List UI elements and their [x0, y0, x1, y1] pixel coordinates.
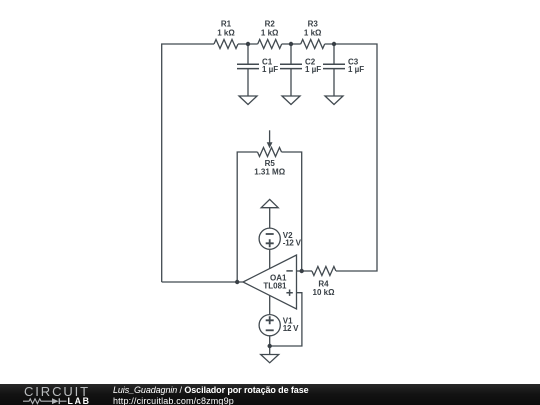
resistor R4 [312, 267, 336, 276]
ground (C2) [282, 96, 300, 105]
wire: V1 to ground node [269, 336, 271, 346]
svg-text:10 kΩ: 10 kΩ [313, 288, 336, 297]
ground (C1) [239, 96, 257, 105]
supply arrow (up) [261, 199, 278, 228]
node: ground junction [268, 344, 272, 348]
svg-text:1 kΩ: 1 kΩ [304, 28, 322, 37]
wire: output left rail up to R1 left lead [162, 44, 214, 282]
wire: inverting input stub [297, 270, 313, 272]
node: inverting input junction [300, 269, 304, 273]
resistor R1 [214, 40, 238, 49]
op-amp OA1 triangle [243, 255, 297, 309]
CircuitLab logo glyph: resistor + diode [23, 396, 67, 405]
svg-text:R5: R5 [265, 159, 276, 168]
CircuitLab logo: LAB [68, 396, 91, 405]
svg-text:1 kΩ: 1 kΩ [261, 28, 279, 37]
node: R2/R3/C2 junction [289, 42, 293, 46]
source V1 [259, 315, 280, 336]
svg-text:1 µF: 1 µF [348, 65, 364, 74]
ground (C3) [325, 96, 343, 105]
op-amp inverting pin mark [286, 270, 292, 272]
wire: output node to R5 left lead [237, 152, 257, 282]
wire: op-amp V- pin to V1 [269, 296, 271, 315]
node: R3/C3 junction [332, 42, 336, 46]
svg-text:-12 V: -12 V [283, 239, 302, 248]
wire: op-amp output [162, 281, 243, 283]
wire: V2 to op-amp V+ pin [269, 249, 271, 268]
resistor R2 [258, 40, 282, 49]
op-amp non-inverting pin mark [286, 290, 292, 296]
CircuitLab logo: CIRCUIT [24, 384, 90, 399]
svg-text:1 kΩ: 1 kΩ [217, 28, 235, 37]
resistor R5 (rheostat) [258, 130, 282, 156]
wire: R1 to R2 [238, 43, 258, 45]
wire: R3 to right rail down to R4 [325, 44, 377, 271]
node: R1/R2/C1 junction [246, 42, 250, 46]
svg-text:TL081: TL081 [263, 282, 287, 291]
footer bar [0, 384, 540, 405]
svg-text:1.31 MΩ: 1.31 MΩ [254, 168, 285, 177]
capacitor C1 [237, 44, 259, 96]
node: output/R5 junction [235, 280, 239, 284]
source V2 [259, 228, 280, 249]
svg-text:1 µF: 1 µF [262, 65, 278, 74]
capacitor C2 [280, 44, 302, 96]
footer text line 1 [113, 385, 309, 395]
wire: R2 to R3 [282, 43, 301, 45]
ground (main) [261, 346, 279, 363]
svg-text:R2: R2 [265, 20, 276, 29]
svg-text:1 µF: 1 µF [305, 65, 321, 74]
resistor R3 [301, 40, 325, 49]
svg-text:R1: R1 [221, 20, 232, 29]
svg-text:12 V: 12 V [283, 324, 299, 333]
wire: R5 right lead down to inverting node [282, 152, 302, 271]
footer text line 2 [113, 396, 234, 405]
svg-text:R3: R3 [308, 20, 319, 29]
wire: non-inverting input return path [270, 293, 302, 346]
capacitor C3 [323, 44, 345, 96]
